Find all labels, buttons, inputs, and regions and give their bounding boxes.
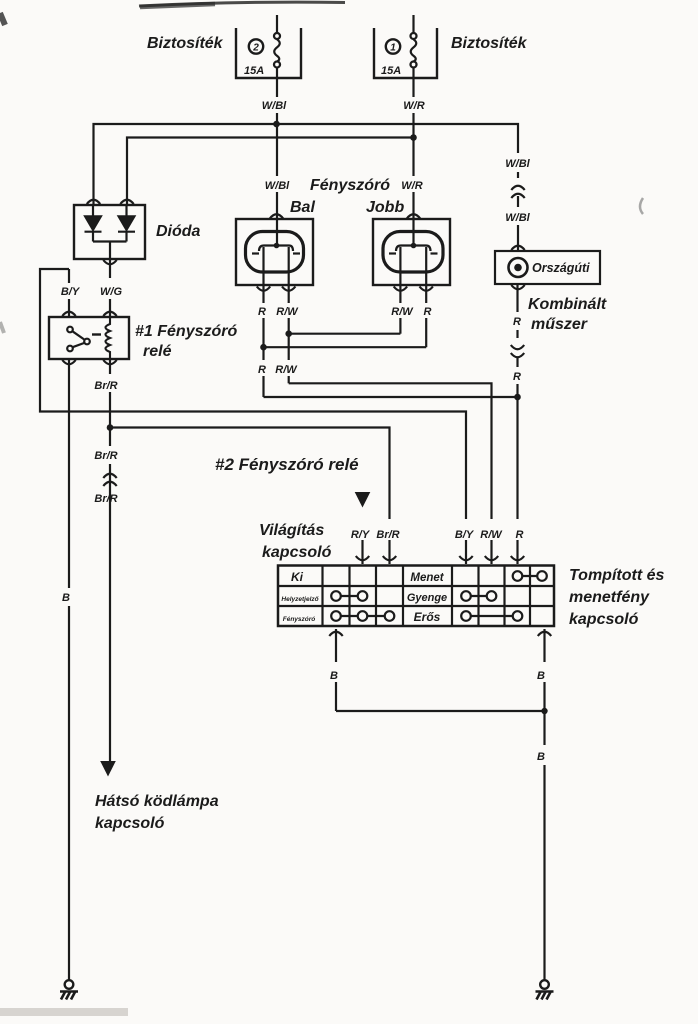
- connector chevron below diode output: [103, 260, 116, 264]
- wire B from switch left: [336, 629, 545, 711]
- connector chevron above diode left input: [87, 200, 100, 204]
- connector chevron below relay pin Br/R: [103, 360, 116, 364]
- wire headlamp Jobb pin R: [425, 247, 427, 303]
- junction dot R net: [514, 394, 521, 401]
- svg-text:R/W: R/W: [275, 364, 298, 376]
- wire headlamp Bal pin R: [262, 247, 264, 303]
- wire Jobb R/W down: [399, 318, 401, 334]
- wire R/W to switch: [289, 383, 492, 519]
- relay K1 contact: [67, 327, 101, 352]
- wire headlamp Bal pin R/W: [288, 247, 290, 303]
- wire Jobb R down: [425, 318, 427, 347]
- connector double chevron W/Bl: [511, 186, 524, 198]
- ground G1: [60, 980, 78, 999]
- wire B from switch right to ground: [543, 629, 545, 980]
- junction dot W/Bl bus A: [273, 121, 280, 128]
- fuse F2 symbol: [274, 15, 280, 68]
- svg-text:Menet: Menet: [410, 572, 444, 584]
- switch contacts row2 Gyenge: [461, 591, 496, 601]
- switch contacts row3 Fényszóró: [331, 611, 394, 621]
- diode D1 (left): [85, 205, 102, 242]
- switch table frame: [278, 566, 554, 627]
- wire diode common output: [93, 242, 127, 260]
- connector chevron below Országúti: [511, 285, 524, 289]
- wire W/Bl to Országúti: [517, 172, 519, 250]
- headlamp Jobb bulb outline: [383, 232, 443, 273]
- arrow from #2 relay: [355, 492, 371, 508]
- svg-text:Jobb: Jobb: [366, 199, 404, 216]
- svg-text:Fényszóró: Fényszóró: [283, 616, 316, 623]
- arrow chevron out of switch bottom left (B): [329, 632, 342, 636]
- labels R R/W second: [258, 364, 298, 376]
- svg-text:Tompított és: Tompított és: [569, 567, 665, 584]
- label Kombinált műszer: [528, 296, 607, 333]
- svg-text:R: R: [516, 529, 524, 541]
- diode box: [74, 205, 145, 259]
- svg-text:W/G: W/G: [100, 286, 122, 298]
- svg-text:W/Bl: W/Bl: [265, 180, 290, 192]
- arrow chevron out of switch bottom right (B): [538, 632, 551, 636]
- svg-text:W/Bl: W/Bl: [505, 158, 530, 170]
- wire Bal R/W down: [288, 318, 290, 383]
- svg-text:R: R: [513, 316, 521, 328]
- fuse F2 box: [236, 28, 301, 78]
- svg-text:Ki: Ki: [291, 570, 304, 584]
- wire R/W link Bal-Jobb: [289, 333, 401, 335]
- Országúti indicator box: [495, 251, 600, 284]
- relay K1 box: [49, 317, 129, 359]
- svg-text:Fényszóró: Fényszóró: [310, 177, 390, 194]
- wire B/Y from relay via bracket to switch: [40, 269, 466, 564]
- svg-text:B/Y: B/Y: [61, 286, 81, 298]
- svg-text:W/Bl: W/Bl: [505, 212, 530, 224]
- fuse F1 symbol: [411, 15, 417, 68]
- svg-text:B/Y: B/Y: [455, 529, 475, 541]
- svg-text:kapcsoló: kapcsoló: [569, 611, 639, 628]
- svg-text:W/Bl: W/Bl: [262, 100, 287, 112]
- labels R/W R below Jobb: [391, 306, 431, 318]
- svg-text:kapcsoló: kapcsoló: [95, 815, 165, 832]
- svg-text:15A: 15A: [381, 65, 401, 77]
- svg-text:Gyenge: Gyenge: [407, 592, 447, 604]
- junction dot Br/R: [107, 424, 114, 431]
- svg-text:B: B: [537, 751, 545, 763]
- switch row labels: [281, 570, 447, 624]
- wire bus A (W/Bl) horizontal with bends to diode and Országúti: [94, 124, 519, 205]
- fuse F1 box: [374, 28, 437, 78]
- connector chevron above relay pin W/G: [103, 312, 116, 316]
- svg-text:menetfény: menetfény: [569, 589, 650, 606]
- wire Br/R branch to light switch: [110, 428, 390, 520]
- svg-text:műszer: műszer: [531, 316, 588, 333]
- svg-text:R/Y: R/Y: [351, 529, 371, 541]
- svg-text:R/W: R/W: [391, 306, 414, 318]
- svg-text:R: R: [258, 306, 266, 318]
- headlamp Bal bulb outline: [246, 232, 304, 273]
- arrow to rear fog lamp switch: [100, 761, 116, 777]
- connector chevron below relay pin B: [62, 360, 75, 364]
- svg-text:R/W: R/W: [480, 529, 503, 541]
- wire W/G from diode to relay coil: [109, 259, 111, 317]
- switch contacts row3 Erős: [461, 611, 522, 621]
- svg-text:B: B: [330, 670, 338, 682]
- junction dot W/R bus B: [410, 134, 417, 141]
- svg-text:Biztosíték: Biztosíték: [147, 35, 224, 52]
- connector chevron above headlamp Jobb: [407, 214, 420, 218]
- svg-text:relé: relé: [143, 343, 172, 360]
- wire W/Bl vertical from fuse F2 to headlamp Bal: [276, 67, 278, 245]
- diode D2 (right): [118, 205, 135, 242]
- svg-text:R: R: [424, 306, 432, 318]
- junction dot R link: [260, 344, 267, 351]
- svg-text:#1 Fényszóró: #1 Fényszóró: [135, 323, 237, 340]
- connector double chevron on Br/R wire: [103, 474, 116, 486]
- svg-text:R: R: [258, 364, 266, 376]
- label Tompított és menetfény kapcsoló: [569, 567, 665, 628]
- wire R/Y into switch: [361, 540, 363, 564]
- switch contacts row2 Helyzetjelző: [331, 591, 367, 601]
- svg-text:B: B: [537, 670, 545, 682]
- fuse F1 circled 1: [386, 39, 400, 53]
- svg-text:R: R: [513, 371, 521, 383]
- svg-text:Br/R: Br/R: [94, 380, 117, 392]
- high beam indicator symbol: [509, 258, 528, 277]
- wire R to switch junction with Kombinált: [264, 396, 518, 398]
- wire W/R vertical from fuse F1 to headlamp Jobb: [412, 67, 414, 245]
- svg-text:2: 2: [252, 43, 259, 54]
- svg-text:kapcsoló: kapcsoló: [262, 544, 332, 561]
- wire Br/R from relay down: [109, 359, 111, 761]
- headlamp titles: [290, 177, 404, 216]
- labels above switch: [351, 529, 524, 541]
- headlamp Bal bulb contacts: [252, 243, 300, 254]
- junction dot B net: [541, 708, 547, 714]
- wire bus B (W/R) horizontal to diode right input: [127, 138, 414, 206]
- svg-text:Bal: Bal: [290, 199, 315, 216]
- svg-text:Br/R: Br/R: [94, 450, 117, 462]
- fuse F2 circled 2: [249, 39, 263, 53]
- headlamp Jobb bulb contacts: [389, 243, 438, 254]
- connector chevron above diode right input: [120, 200, 133, 204]
- connector chevron above Országúti: [511, 246, 524, 250]
- headlamp Bal box: [236, 219, 313, 285]
- headlamp Jobb box: [373, 219, 450, 285]
- ground G2: [536, 980, 554, 999]
- connector chevron above relay pin B/Y: [62, 312, 75, 316]
- switch contacts row1 Menet: [513, 571, 547, 581]
- svg-text:W/R: W/R: [401, 180, 422, 192]
- wire R from Kombinált down to switch: [516, 284, 518, 564]
- connector chevrons below headlamp Jobb: [394, 287, 433, 291]
- svg-text:W/R: W/R: [403, 100, 424, 112]
- svg-text:Hátsó ködlámpa: Hátsó ködlámpa: [95, 793, 219, 810]
- connector chevron above headlamp Bal: [270, 214, 283, 218]
- svg-text:Kombinált: Kombinált: [528, 296, 607, 313]
- label Hátsó ködlámpa kapcsoló: [95, 793, 219, 832]
- wire Bal R down: [262, 318, 264, 397]
- junction dot R/W link: [285, 330, 292, 337]
- svg-text:Helyzetjelző: Helyzetjelző: [281, 596, 319, 603]
- svg-text:#2 Fényszóró relé: #2 Fényszóró relé: [215, 455, 359, 474]
- connector double chevron R: [511, 345, 524, 357]
- wire B from relay to ground (long left vertical): [68, 359, 70, 980]
- wire headlamp Jobb pin R/W: [399, 247, 401, 303]
- arrow chevrons into switch top: [356, 556, 524, 560]
- svg-text:R/W: R/W: [276, 306, 299, 318]
- svg-text:Br/R: Br/R: [94, 493, 117, 505]
- label Világítás kapcsoló: [259, 522, 332, 561]
- svg-text:B: B: [62, 592, 70, 604]
- labels R R/W below Bal: [258, 306, 299, 318]
- connector chevrons below headlamp Bal: [257, 287, 296, 291]
- svg-text:15A: 15A: [244, 65, 264, 77]
- svg-text:Világítás: Világítás: [259, 522, 324, 539]
- relay K1 coil: [106, 317, 111, 359]
- svg-text:1: 1: [390, 43, 396, 54]
- svg-text:Biztosíték: Biztosíték: [451, 35, 528, 52]
- label #1 Fényszóró relé: [135, 323, 237, 360]
- svg-text:Br/R: Br/R: [376, 529, 399, 541]
- wire R link Bal-Jobb: [264, 346, 427, 348]
- svg-text:Országúti: Országúti: [532, 261, 590, 275]
- svg-text:Erős: Erős: [414, 610, 441, 624]
- svg-text:Dióda: Dióda: [156, 223, 201, 240]
